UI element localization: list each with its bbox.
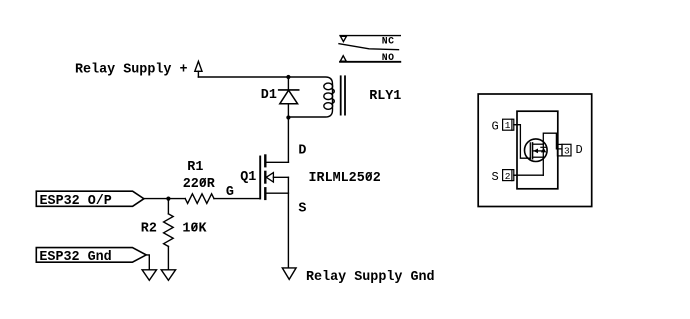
wire drain to pin3 [543,133,561,149]
relay coil bump 1 [332,89,334,93]
pin 2 pad [503,170,514,181]
svg-text:G: G [492,120,499,134]
pin 1 pad [503,119,514,130]
svg-text:D: D [576,143,583,157]
svg-text:Q1: Q1 [240,170,256,185]
relay core line right [344,76,346,114]
die body diode [541,147,546,152]
relay contact NO triangle [340,56,346,62]
svg-text:R2: R2 [141,222,157,237]
wire NC contact line [340,35,400,37]
die body arrow [533,149,538,154]
svg-text:D1: D1 [261,88,277,103]
wire source vertical [287,177,289,267]
ground arrow ESP32 [142,270,156,281]
svg-text:Relay Supply Gnd: Relay Supply Gnd [306,270,435,285]
package body SOT-23 [517,111,558,189]
connector flag ESP32 Gnd [36,248,146,263]
wire source to channel [266,192,289,194]
transistor Q1 channel segment top [264,156,266,167]
relay coil loop 1 [324,83,333,90]
relay contact common pivot triangle [341,36,347,41]
svg-text:10K: 10K [182,222,207,237]
wire supply arrow stub [197,71,199,77]
transistor Q1 body arrow [266,173,273,182]
svg-text:G: G [226,185,234,200]
ground arrow R2 [161,270,175,281]
resistor R1 [185,194,214,204]
svg-text:S: S [492,170,499,184]
pin 2 stub [512,170,517,181]
svg-text:R1: R1 [187,160,203,175]
svg-text:2: 2 [505,171,511,182]
svg-text:3: 3 [564,145,570,156]
package frame [478,94,592,207]
transistor Q1 channel segment middle [264,172,266,183]
svg-text:IRLML2502: IRLML2502 [309,171,381,186]
wire top supply rail [198,76,288,78]
relay coil RLY1 outline [288,77,332,117]
wire gnd flag stub [146,255,149,269]
svg-text:RLY1: RLY1 [369,89,401,104]
wire R2 top [167,199,169,214]
svg-text:S: S [298,201,306,216]
wire drain to channel [266,161,289,163]
die source line [533,156,544,158]
supply arrow [195,61,202,71]
svg-text:NO: NO [382,52,395,63]
wire body to source [273,176,288,178]
relay coil bump 2 [332,99,334,103]
label 10K zero slash [192,224,197,231]
svg-text:1: 1 [505,120,511,131]
pin 3 stub [557,144,562,156]
wire D1 anode [287,104,289,118]
label 220R zero slash [201,179,206,186]
die body line [533,150,544,152]
relay coil loop 2 [324,93,333,100]
wire gate net right [214,198,259,200]
relay contact arm [339,44,399,50]
svg-text:ESP32 Gnd: ESP32 Gnd [39,250,111,265]
pin 1 stub [512,119,517,130]
die circle [525,139,548,162]
node junction top [286,75,290,79]
relay core line left [340,76,342,114]
svg-text:ESP32 O/P: ESP32 O/P [40,194,112,209]
wire gate net left [144,198,185,200]
wire pin1 to gate [514,125,530,159]
wire R2 bottom [167,246,169,269]
die gate bar [529,143,531,159]
wire source to pin2 [514,174,543,176]
node junction gate net [166,197,170,201]
resistor R2 [164,214,174,247]
die drain line [533,143,544,145]
label IRLML2502 zero slash [367,173,372,180]
pin 3 pad [562,144,571,156]
die channel bar [532,143,534,159]
svg-text:NC: NC [382,35,395,46]
ground arrow relay supply [282,268,296,280]
wire drain vertical [287,118,289,163]
connector flag ESP32 O/P [36,191,144,206]
transistor Q1 gate bar [259,157,261,199]
diode D1 [279,90,299,104]
wire NO contact line [340,61,400,63]
wire die right vertical [542,144,544,175]
node junction bottom [286,115,290,119]
svg-text:D: D [298,143,306,158]
svg-text:220R: 220R [183,177,216,192]
wire D1 cathode [287,77,289,90]
transistor Q1 channel segment bottom [264,188,266,199]
relay coil loop 3 [324,103,333,110]
svg-text:Relay Supply +: Relay Supply + [75,63,188,78]
